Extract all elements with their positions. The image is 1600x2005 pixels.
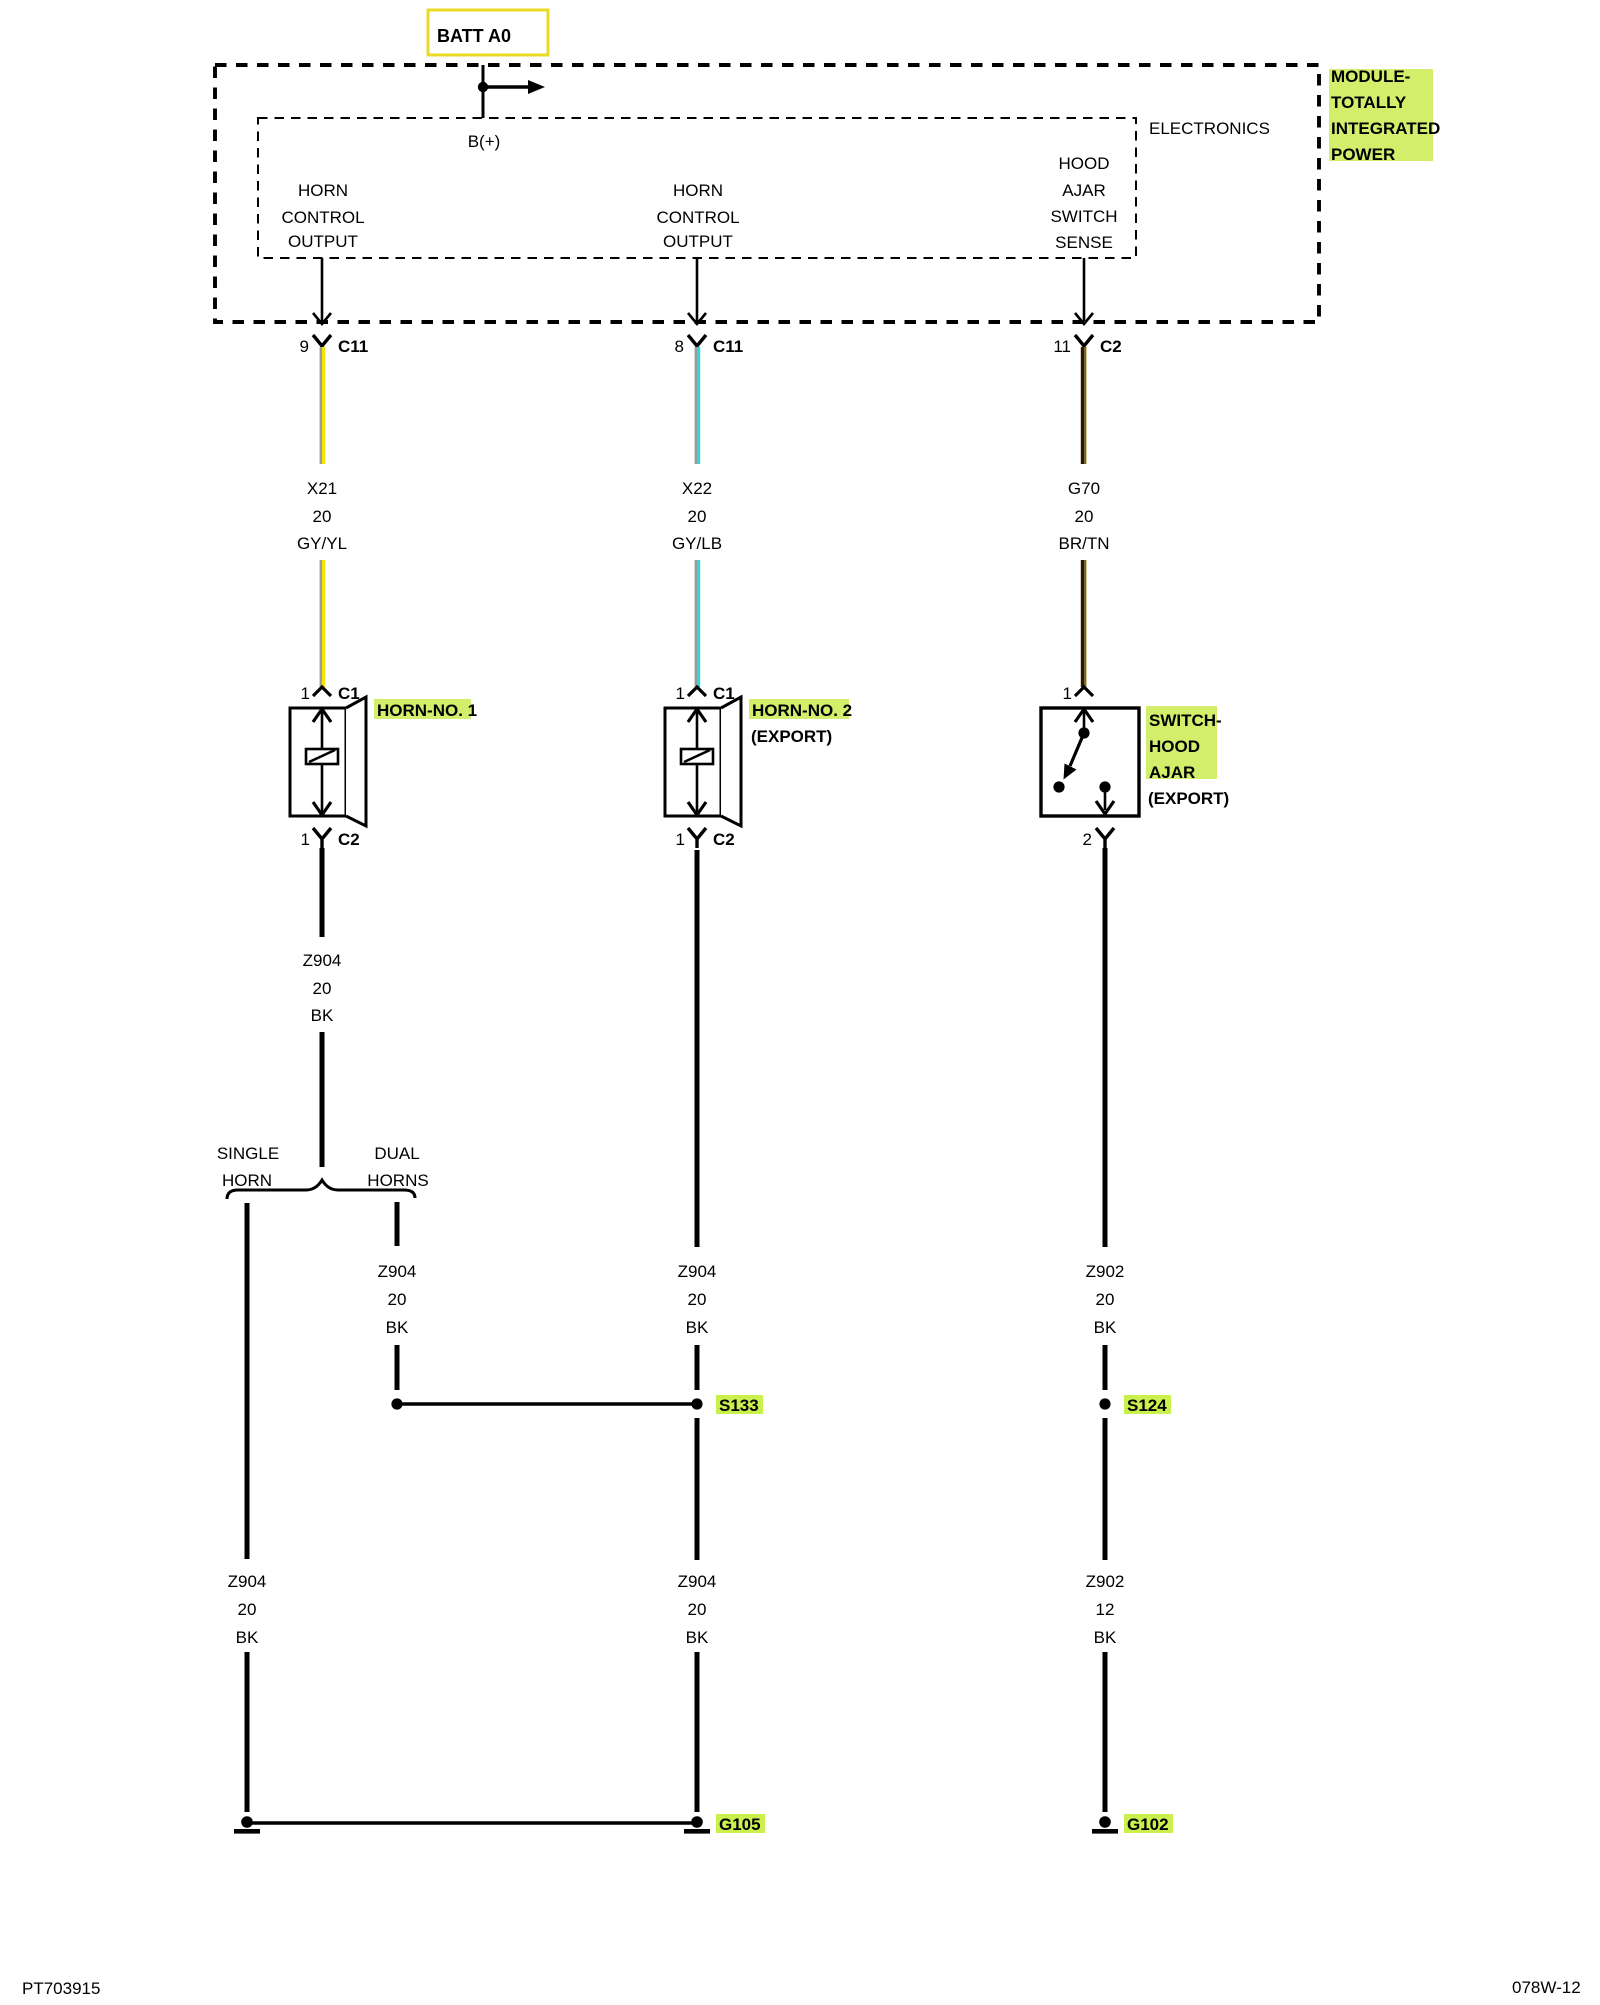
svg-text:S133: S133 <box>719 1396 759 1415</box>
svg-text:C1: C1 <box>713 684 735 703</box>
label HORN-NO. 1 <box>374 699 471 719</box>
svg-text:C2: C2 <box>1100 337 1122 356</box>
horn HORN-NO. 2: coil element <box>681 749 713 764</box>
svg-text:SENSE: SENSE <box>1055 233 1113 252</box>
horn HORN-NO. 1: speaker cone <box>346 697 366 826</box>
svg-text:BATT A0: BATT A0 <box>437 26 511 46</box>
svg-text:INTEGRATED: INTEGRATED <box>1331 119 1440 138</box>
wire below S133 <box>695 1418 700 1560</box>
svg-text:Z904: Z904 <box>303 951 342 970</box>
wire to ground G102 <box>1103 1652 1108 1812</box>
svg-text:11: 11 <box>1053 337 1071 356</box>
svg-text:BK: BK <box>686 1628 709 1647</box>
wire horn2 to splice S133 <box>695 1345 700 1390</box>
svg-text:078W-12: 078W-12 <box>1512 1978 1581 1997</box>
svg-text:1: 1 <box>301 830 310 849</box>
svg-text:12: 12 <box>1096 1600 1115 1619</box>
svg-text:20: 20 <box>313 507 332 526</box>
svg-text:SWITCH: SWITCH <box>1050 207 1117 226</box>
brace single/dual horns <box>227 1180 415 1199</box>
battery feed label box BATT A0 <box>428 10 548 55</box>
svg-text:Z902: Z902 <box>1086 1572 1125 1591</box>
wire Z902 from switch <box>1103 848 1108 1247</box>
svg-text:20: 20 <box>313 979 332 998</box>
svg-text:C11: C11 <box>713 337 743 356</box>
switch: top terminal arrow <box>1083 712 1086 731</box>
module outer dashed box (TIPM) <box>215 65 1319 322</box>
horn component HORN-NO. 1: body <box>290 708 346 816</box>
svg-text:HORNS: HORNS <box>367 1171 428 1190</box>
electronics inner dashed box <box>258 118 1136 258</box>
svg-text:20: 20 <box>688 1600 707 1619</box>
wire to ground G105 <box>695 1652 700 1812</box>
horn component HORN-NO. 2: body <box>665 708 721 816</box>
svg-text:HORN-NO. 2: HORN-NO. 2 <box>752 701 852 720</box>
ground link wire between grounds <box>250 1821 694 1825</box>
horn HORN-NO. 2: speaker cone <box>721 697 741 826</box>
wire from BATT A0 into module <box>482 65 485 118</box>
wire dual horns to splice <box>395 1345 400 1390</box>
svg-text:B(+): B(+) <box>468 132 501 151</box>
svg-text:S124: S124 <box>1127 1396 1167 1415</box>
svg-text:2: 2 <box>1083 830 1092 849</box>
wire single horn branch (lower) <box>245 1652 250 1812</box>
horn HORN-NO. 1: internal pin line with arrows <box>321 710 324 814</box>
svg-text:PT703915: PT703915 <box>22 1979 100 1998</box>
svg-text:Z902: Z902 <box>1086 1262 1125 1281</box>
wire Z904 horn1 (to brace) <box>320 1032 325 1167</box>
junction dot on B(+) feed <box>478 82 488 92</box>
svg-text:8: 8 <box>675 337 684 356</box>
svg-text:HORN: HORN <box>222 1171 272 1190</box>
svg-text:1: 1 <box>1063 684 1072 703</box>
svg-text:1: 1 <box>676 830 685 849</box>
svg-text:MODULE-: MODULE- <box>1331 67 1410 86</box>
svg-text:C1: C1 <box>338 684 360 703</box>
splice link wire to S133 <box>397 1402 697 1406</box>
svg-text:CONTROL: CONTROL <box>656 208 739 227</box>
svg-text:X22: X22 <box>682 479 712 498</box>
svg-text:G105: G105 <box>719 1815 761 1834</box>
wire switch to splice S124 <box>1103 1345 1108 1390</box>
svg-text:BK: BK <box>686 1318 709 1337</box>
svg-text:C2: C2 <box>338 830 360 849</box>
label HORN-NO. 2 (EXPORT) <box>749 699 849 719</box>
svg-text:20: 20 <box>688 1290 707 1309</box>
svg-text:C11: C11 <box>338 337 368 356</box>
svg-text:HORN-NO. 1: HORN-NO. 1 <box>377 701 477 720</box>
splice S124 <box>1099 1398 1110 1409</box>
wire single horn branch (upper) <box>245 1203 250 1559</box>
wire G70 20 BR/TN (upper segment) <box>1081 347 1084 464</box>
wire X22 20 GY/LB (upper segment) <box>695 347 697 464</box>
wire Z904 from horn1 (upper) <box>320 848 325 937</box>
svg-text:BK: BK <box>386 1318 409 1337</box>
svg-text:POWER: POWER <box>1331 145 1395 164</box>
svg-text:SINGLE: SINGLE <box>217 1144 279 1163</box>
svg-text:ELECTRONICS: ELECTRONICS <box>1149 119 1270 138</box>
internal output arrow (middle) <box>696 258 699 321</box>
wire G70 (lower segment) <box>1081 560 1084 687</box>
svg-text:Z904: Z904 <box>678 1262 717 1281</box>
label SWITCH-HOOD AJAR (EXPORT) <box>1146 706 1217 779</box>
svg-text:AJAR: AJAR <box>1149 763 1195 782</box>
svg-text:(EXPORT): (EXPORT) <box>751 727 832 746</box>
internal output arrow (right) <box>1083 258 1086 321</box>
svg-text:X21: X21 <box>307 479 337 498</box>
wire Z904 from horn2 <box>695 850 700 1247</box>
svg-text:9: 9 <box>300 337 309 356</box>
ground symbol (single horn) <box>241 1816 253 1828</box>
switch: lower-right contact dot <box>1099 781 1110 792</box>
svg-text:G70: G70 <box>1068 479 1100 498</box>
ground G105 <box>691 1816 703 1828</box>
svg-text:Z904: Z904 <box>678 1572 717 1591</box>
svg-text:HORN: HORN <box>673 181 723 200</box>
svg-text:GY/YL: GY/YL <box>297 534 347 553</box>
horn HORN-NO. 1: coil element <box>306 749 338 764</box>
wire X21 20 GY/YL (upper segment) <box>320 347 322 464</box>
svg-text:BR/TN: BR/TN <box>1059 534 1110 553</box>
svg-text:1: 1 <box>301 684 310 703</box>
svg-text:BK: BK <box>1094 1318 1117 1337</box>
ground G102 <box>1099 1816 1111 1828</box>
svg-text:CONTROL: CONTROL <box>281 208 364 227</box>
svg-text:HOOD: HOOD <box>1149 737 1200 756</box>
svg-text:AJAR: AJAR <box>1062 181 1105 200</box>
svg-text:(EXPORT): (EXPORT) <box>1148 789 1229 808</box>
switch: bottom terminal arrow <box>1104 787 1107 810</box>
horn HORN-NO. 2: internal pin line with arrows <box>696 710 699 814</box>
branch arrow to other circuits <box>483 85 528 88</box>
label G102 <box>1124 1814 1173 1833</box>
svg-text:1: 1 <box>676 684 685 703</box>
svg-text:BK: BK <box>311 1006 334 1025</box>
svg-text:BK: BK <box>1094 1628 1117 1647</box>
svg-text:OUTPUT: OUTPUT <box>663 232 733 251</box>
svg-text:HORN: HORN <box>298 181 348 200</box>
wire X21 (lower segment) <box>320 560 322 687</box>
wire X22 (lower segment) <box>695 560 697 687</box>
svg-text:OUTPUT: OUTPUT <box>288 232 358 251</box>
svg-text:GY/LB: GY/LB <box>672 534 722 553</box>
module name label MODULE-TOTALLY INTEGRATED POWER <box>1329 69 1433 161</box>
svg-text:Z904: Z904 <box>378 1262 417 1281</box>
splice S133 <box>691 1398 702 1409</box>
switch: movable contact arm <box>1070 733 1084 766</box>
svg-text:20: 20 <box>688 507 707 526</box>
internal output arrow (left) <box>321 258 324 321</box>
junction dot at dual-horn splice <box>391 1398 402 1409</box>
svg-text:C2: C2 <box>713 830 735 849</box>
label G105 <box>716 1814 765 1833</box>
svg-text:TOTALLY: TOTALLY <box>1331 93 1407 112</box>
switch hood ajar: body box <box>1041 708 1139 816</box>
switch: lower-left contact dot <box>1053 781 1064 792</box>
svg-text:G102: G102 <box>1127 1815 1169 1834</box>
svg-text:20: 20 <box>388 1290 407 1309</box>
svg-text:HOOD: HOOD <box>1059 154 1110 173</box>
svg-text:Z904: Z904 <box>228 1572 267 1591</box>
wire dual horns branch <box>395 1202 400 1246</box>
svg-text:20: 20 <box>238 1600 257 1619</box>
wire below S124 <box>1103 1418 1108 1560</box>
svg-text:20: 20 <box>1075 507 1094 526</box>
switch: top contact dot <box>1078 727 1089 738</box>
svg-text:SWITCH-: SWITCH- <box>1149 711 1222 730</box>
svg-text:DUAL: DUAL <box>374 1144 419 1163</box>
svg-text:BK: BK <box>236 1628 259 1647</box>
svg-text:20: 20 <box>1096 1290 1115 1309</box>
